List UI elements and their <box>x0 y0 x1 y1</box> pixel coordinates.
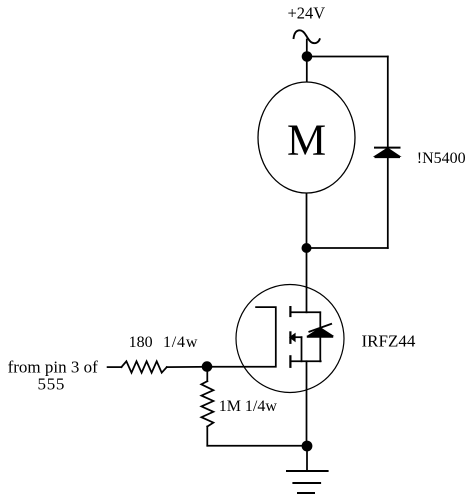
svg-text:+24V: +24V <box>288 3 326 22</box>
svg-text:1M 1/4w: 1M 1/4w <box>219 398 278 415</box>
svg-text:1/4w: 1/4w <box>163 334 198 351</box>
svg-text:555: 555 <box>38 374 66 393</box>
svg-text:M: M <box>287 116 326 165</box>
svg-text:!N5400: !N5400 <box>417 150 466 167</box>
svg-text:180: 180 <box>129 334 153 351</box>
svg-text:IRFZ44: IRFZ44 <box>362 331 416 350</box>
